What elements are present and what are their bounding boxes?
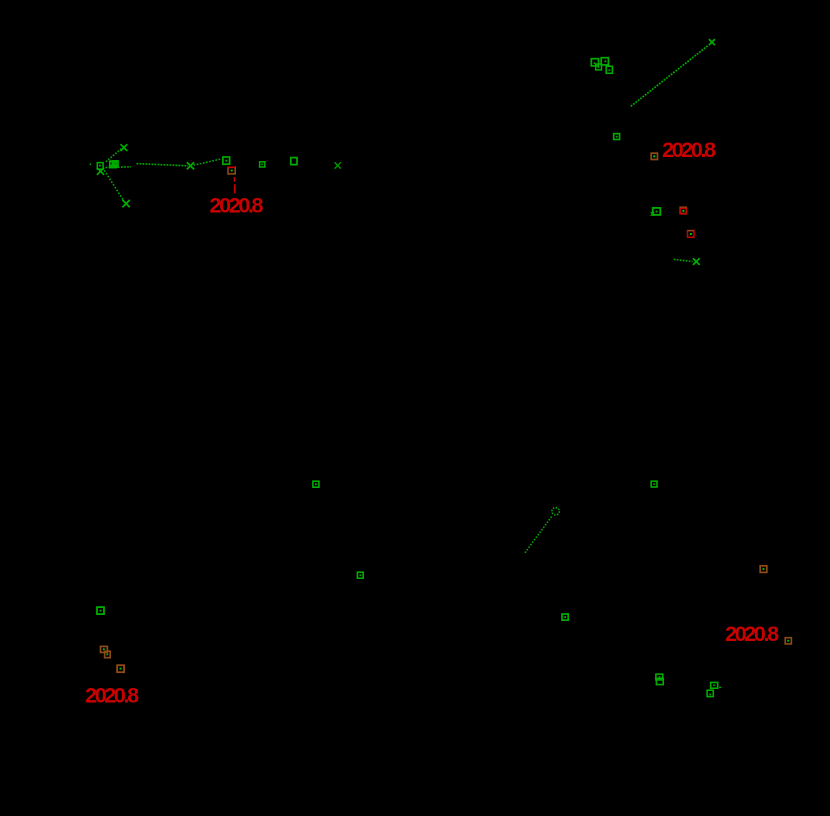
svg-text:2020.8: 2020.8 (725, 622, 779, 646)
svg-text:2020.8: 2020.8 (662, 138, 716, 162)
svg-text:2020.8: 2020.8 (85, 683, 139, 707)
svg-text:2020.8: 2020.8 (210, 194, 264, 218)
